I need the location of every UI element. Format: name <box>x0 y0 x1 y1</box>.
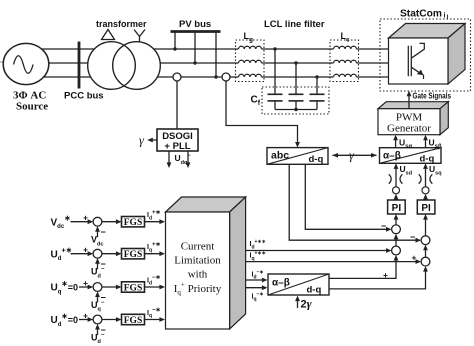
svg-text:Gate Signals: Gate Signals <box>413 92 452 101</box>
junction Cf common <box>294 108 297 111</box>
wire FGS1 output <box>145 221 162 223</box>
wire feedback row 3 <box>97 296 99 303</box>
StatCom dashed enclosure <box>380 19 471 91</box>
3-phase AC source G1 <box>3 43 49 84</box>
transform block alpha-beta to d-q (upper) <box>380 148 442 164</box>
PV bus bar <box>171 30 221 33</box>
capacitor Cf2 <box>289 93 304 95</box>
svg-text:abc: abc <box>271 150 289 162</box>
wire Cf leg 2 <box>295 63 297 94</box>
wire phase-B Lc to StatCom <box>357 62 389 64</box>
wire CL out Id-* to ab2 <box>246 279 264 281</box>
svg-text:2γ: 2γ <box>301 297 312 311</box>
svg-text:LCL line filter: LCL line filter <box>264 19 325 30</box>
decoupling arcs q <box>419 174 433 183</box>
junction PV tap 1 <box>173 47 176 50</box>
svg-text:α–β: α–β <box>383 150 401 161</box>
wire S4 to FGS <box>102 319 118 321</box>
svg-text:d-q: d-q <box>309 154 324 165</box>
capacitor Cf dashed box <box>262 87 329 114</box>
wire ab2 out1 to S6 <box>329 259 396 279</box>
svg-text:PI: PI <box>392 203 402 214</box>
wire setpoint row 2 <box>71 253 90 255</box>
current limitation block <box>166 197 246 212</box>
inductor Lc phase B coil <box>334 60 357 63</box>
wire U_s-beta <box>425 140 427 148</box>
IGBT Q1 symbol <box>408 46 411 76</box>
wire S8 to S7 <box>425 248 427 257</box>
svg-text:+: + <box>83 310 88 320</box>
wire abc out d to S5col <box>305 164 388 229</box>
junction Cf tap A <box>273 47 276 50</box>
svg-text:−: − <box>101 227 106 237</box>
capacitor Cf3 <box>310 93 325 95</box>
inductor Lg phase C coil <box>239 74 262 77</box>
wire feedback row 4 <box>97 328 99 335</box>
wire gamma reference <box>333 154 377 156</box>
wire Cf leg 1 <box>274 49 276 94</box>
summing junction S6 <box>392 246 401 255</box>
measurement node M2 <box>222 73 230 81</box>
svg-text:PI: PI <box>421 203 431 214</box>
wire CL out Id** to S5 <box>246 250 388 252</box>
svg-text:d-q: d-q <box>420 154 435 165</box>
wire setpoint row 3 <box>79 286 90 288</box>
block FGS1 <box>122 217 145 227</box>
wire feedback row 2 <box>97 262 99 269</box>
wire Cf common <box>275 109 317 111</box>
svg-text:−: − <box>410 232 415 242</box>
wire phase-A source to Lg <box>26 48 239 50</box>
svg-text:−: − <box>381 221 386 231</box>
controller PI1 <box>388 200 406 214</box>
svg-text:Limitation: Limitation <box>174 255 221 267</box>
wire gate signals <box>408 96 410 109</box>
wire phase-A Lc to StatCom <box>357 48 389 50</box>
wire M1 to DSOGI <box>176 81 178 129</box>
transformer T1 <box>88 42 136 90</box>
wire phase-C source to Lg <box>26 76 239 78</box>
svg-text:transformer: transformer <box>96 19 147 29</box>
wire setpoint row 1 <box>71 221 90 223</box>
svg-text:FGS: FGS <box>124 316 142 326</box>
wire Cf leg 3 <box>316 77 318 94</box>
wire phase-C Lc to StatCom <box>357 76 389 78</box>
svg-text:+ PLL: + PLL <box>164 141 190 152</box>
junction Cf tap B <box>294 61 297 64</box>
inductor Lc phase C coil <box>334 74 357 77</box>
controller PI2 <box>417 200 435 214</box>
wire phase-B Lg to Lc <box>262 62 334 64</box>
wire U_dq output right <box>187 151 189 164</box>
PWM generator block <box>378 102 448 109</box>
svg-text:+: + <box>83 245 88 255</box>
svg-text:Source: Source <box>16 101 48 113</box>
block FGS3 <box>122 282 145 292</box>
wire CL out Iq** to S7 <box>246 261 418 263</box>
inductor Lg phase B coil <box>239 60 262 63</box>
summing junction S8 <box>421 257 430 266</box>
svg-text:+: + <box>83 213 88 223</box>
block FGS2 <box>122 249 145 259</box>
svg-text:Generator: Generator <box>387 123 431 135</box>
svg-text:FGS: FGS <box>124 283 142 293</box>
transformer delta symbol <box>102 30 115 40</box>
wire phase-B source to Lg <box>26 62 239 64</box>
inductor Lc phase A coil <box>334 46 357 49</box>
wire FGS4 output <box>145 319 162 321</box>
PCC bus bar <box>78 42 81 89</box>
wire S1 to FGS <box>102 221 118 223</box>
summing junction S3 <box>93 283 102 292</box>
svg-text:+: + <box>383 270 388 280</box>
svg-text:PWM: PWM <box>396 112 423 124</box>
summing junction S7 <box>421 236 430 245</box>
wire FGS2 output <box>145 253 162 255</box>
wire PI1 to S9 <box>395 197 397 200</box>
wire S9 to ab1 <box>395 168 397 187</box>
wire S2 to FGS <box>102 253 118 255</box>
wire phase-A Lg to Lc <box>262 48 334 50</box>
svg-text:with: with <box>188 269 208 281</box>
inductor Lg phase A coil <box>239 46 262 49</box>
block FGS4 <box>122 314 145 324</box>
wire PV tap 2 <box>194 33 196 64</box>
wire PI2 to S10 <box>425 197 427 200</box>
junction PV tap 2 <box>193 61 196 64</box>
wire phase-C Lg to Lc <box>262 76 334 78</box>
summing junction S5 <box>392 225 401 234</box>
svg-text:+: + <box>412 253 417 263</box>
wire CL out Iq-* to ab2 <box>246 287 264 289</box>
AC source stub <box>0 61 4 63</box>
svg-text:FGS: FGS <box>124 218 142 228</box>
wire S3 to FGS <box>102 286 118 288</box>
summing junction S2 <box>93 249 102 258</box>
wire ab2 out2 to S8 <box>329 270 426 289</box>
svg-text:i: i <box>444 13 446 20</box>
svg-text:StatCom: StatCom <box>400 9 442 20</box>
junction PV tap 3 <box>214 75 217 78</box>
svg-text:FGS: FGS <box>124 250 142 260</box>
capacitor Cf1 <box>268 93 283 95</box>
transform block alpha-beta to d-q (lower) <box>268 274 329 295</box>
StatCom converter cube <box>389 24 466 39</box>
wire PV tap 1 <box>174 33 176 50</box>
transformer wye symbol <box>134 30 145 43</box>
wire feedback row 1 <box>97 230 99 237</box>
wire U_dq output left <box>168 151 170 164</box>
wire S7 to PI2 <box>425 218 427 236</box>
wire M2 to abc <box>226 81 298 145</box>
inductor Lc dashed box <box>330 40 359 82</box>
summing junction S4 <box>93 315 102 324</box>
wire S5 to PI1 <box>395 218 397 225</box>
svg-text:d-q: d-q <box>307 285 322 296</box>
wire abc out q to S7col <box>289 164 417 240</box>
inductor Lg dashed box <box>236 40 265 82</box>
wire gamma out of DSOGI <box>152 139 158 141</box>
svg-text:PV bus: PV bus <box>179 19 211 30</box>
wire U_s-alpha <box>395 140 397 148</box>
transform block abc to d-q <box>267 148 328 165</box>
wire 2gamma <box>297 300 299 309</box>
wire S6 to S5 <box>395 237 397 246</box>
svg-text:PCC bus: PCC bus <box>64 91 104 102</box>
wire FGS3 output <box>145 286 162 288</box>
block DSOGI PLL <box>157 129 198 151</box>
svg-text:α–β: α–β <box>272 278 290 289</box>
wire PV tap 3 <box>215 33 217 78</box>
summing junction S9 <box>393 187 400 194</box>
decoupling arcs d <box>389 174 403 183</box>
summing junction S10 <box>422 187 429 194</box>
summing junction S1 <box>93 217 102 226</box>
svg-text:+: + <box>83 278 88 288</box>
junction Cf tap C <box>315 75 318 78</box>
wire setpoint row 4 <box>79 319 90 321</box>
wire S10 to ab1 <box>425 168 427 187</box>
measurement node M1 <box>173 73 181 81</box>
svg-text:Current: Current <box>181 241 215 253</box>
